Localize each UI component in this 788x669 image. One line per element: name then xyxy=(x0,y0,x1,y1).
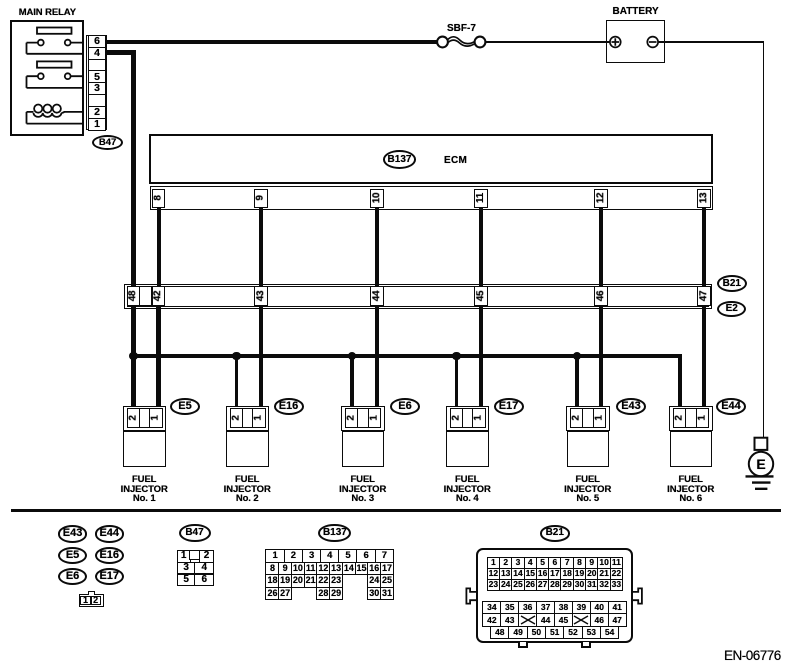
B137 face pin 27 xyxy=(278,587,292,601)
injector 4 pin 1 xyxy=(472,408,486,428)
fuel injector 4 body xyxy=(446,431,489,468)
relay pin 2 xyxy=(88,106,105,119)
B137 face pin 31 xyxy=(380,587,394,601)
label BATTERY xyxy=(613,7,659,17)
fuel injector 6 body xyxy=(670,431,713,468)
label FUEL INJECTOR No. 3 xyxy=(303,475,423,504)
fuel injector 2 body xyxy=(226,431,269,468)
B21 face bottom tab 1 xyxy=(518,642,528,649)
B137 face pin 15 xyxy=(355,562,369,576)
B21 face pin 25 xyxy=(511,579,525,591)
B21 face pin 13 xyxy=(499,568,513,580)
injector 1 pin 1 xyxy=(149,408,163,428)
B21 face pin 26 xyxy=(524,579,538,591)
ECM pin 8 xyxy=(152,189,165,208)
fuse SBF-7 symbol xyxy=(437,37,485,48)
legend connector label B47 xyxy=(179,524,211,542)
B21 face pin 42 xyxy=(482,613,501,627)
label FUEL INJECTOR No. 6 xyxy=(631,475,751,504)
B47 face pin 6 xyxy=(194,574,214,587)
legend connector label E17 xyxy=(95,568,125,585)
relay pin 3 xyxy=(88,82,105,95)
B21 face pin 41 xyxy=(608,601,627,615)
legend 2-pin connector tab xyxy=(88,591,94,595)
B137 face pin 19 xyxy=(278,574,292,588)
label FUEL INJECTOR No. 5 xyxy=(528,475,648,504)
relay pin 1 xyxy=(88,118,105,131)
B21 face pin 5 xyxy=(536,557,550,569)
connector label B137 xyxy=(383,150,416,169)
B21 face pin 19 xyxy=(573,568,587,580)
B47 face pin 1 xyxy=(177,550,191,563)
B21 face bottom tab 2 xyxy=(581,642,591,649)
B21 face pin 33 xyxy=(610,579,624,591)
bus junction at injector 5 xyxy=(573,352,581,360)
relay pin 4 xyxy=(88,47,105,60)
B21 face pin 40 xyxy=(590,601,609,615)
relay strip blank cell xyxy=(88,94,105,107)
legend connector label B21 xyxy=(540,525,570,541)
ECM pin 13 xyxy=(697,189,710,208)
strip pin 43 xyxy=(254,286,267,306)
fuel injector 5 connector outline xyxy=(566,406,610,431)
strip pin 48 xyxy=(127,286,140,306)
connector label E2 xyxy=(717,301,746,318)
wire strip pin 47 down to injector xyxy=(702,305,706,408)
legend connector label E43 xyxy=(58,525,88,542)
label MAIN RELAY xyxy=(19,8,76,18)
strip pin 44 xyxy=(370,286,383,306)
label FUEL INJECTOR No. 2 xyxy=(187,475,307,504)
B21 face pin 45 xyxy=(554,613,573,627)
wire relay pin6 to fuse SBF-7 xyxy=(107,40,436,44)
connector label B47 xyxy=(92,135,124,150)
connector strip B21/E2 inner xyxy=(127,286,709,306)
fuel injector 3 connector outline xyxy=(341,406,385,431)
connector strip B21/E2 outer xyxy=(124,284,711,309)
B21 face pin 43 xyxy=(500,613,519,627)
injector 4 connector middle cell xyxy=(462,408,474,428)
B21 face pin 6 xyxy=(548,557,562,569)
fuel injector 5 body xyxy=(567,431,610,468)
injector 3 connector middle cell xyxy=(357,408,369,428)
B21 face pin 30 xyxy=(573,579,587,591)
relay pin 6 xyxy=(88,35,105,48)
B137 face pin 30 xyxy=(367,587,381,601)
wire bus drop to injector pin 2 xyxy=(235,356,239,407)
bus junction at injector 2 xyxy=(232,352,240,360)
B21 face pin 8 xyxy=(573,557,587,569)
B21 face pin 39 xyxy=(572,601,591,615)
label SBF-7 xyxy=(447,24,476,34)
fuel injector 4 connector outline xyxy=(446,406,490,431)
wire battery negative to corner xyxy=(658,41,764,43)
legend connector label E44 xyxy=(95,525,125,542)
B137 face pin 2 xyxy=(284,549,304,563)
wire strip pin 44 down to injector xyxy=(375,305,379,408)
strip pin 42 xyxy=(152,286,165,306)
wire ECM pin 9 down to connector strip xyxy=(259,207,263,286)
connector label E17 xyxy=(494,398,524,415)
label E (ground) xyxy=(755,457,768,471)
wire ground bus horizontal xyxy=(131,354,682,358)
strip pin 46 xyxy=(594,286,607,306)
battery box xyxy=(606,20,665,63)
B137 face pin 21 xyxy=(304,574,318,588)
injector 3 pin 2 xyxy=(345,408,359,428)
ground symbol lines xyxy=(746,476,774,488)
ground connector square (E) xyxy=(755,438,768,450)
connector label B21 xyxy=(717,275,747,292)
B21 face pin 9 xyxy=(585,557,599,569)
B21 face pin 7 xyxy=(560,557,574,569)
B47 face pin 4 xyxy=(194,562,214,575)
B137 face pin 8 xyxy=(265,562,279,576)
wire ECM pin 13 down to connector strip xyxy=(702,207,706,286)
B21 face pin 3 xyxy=(511,557,525,569)
injector 6 connector middle cell xyxy=(685,408,697,428)
B47 face pin 2 xyxy=(199,550,215,563)
B137 face pin 3 xyxy=(302,549,322,563)
B21 face pin 28 xyxy=(548,579,562,591)
B21 face pin 27 xyxy=(536,579,550,591)
strip blank cell xyxy=(139,286,152,306)
B137 face pin 10 xyxy=(291,562,305,576)
B21 face pin 10 xyxy=(597,557,611,569)
injector 2 pin 2 xyxy=(230,408,244,428)
wire strip pin 42 down to injector xyxy=(156,305,160,408)
battery negative terminal xyxy=(647,37,658,48)
B137 face pin 18 xyxy=(265,574,279,588)
injector 5 pin 2 xyxy=(570,408,584,428)
B21 face pin 47 xyxy=(608,613,627,627)
B21 face housing xyxy=(476,548,633,643)
main relay box xyxy=(10,20,84,136)
wire separator line xyxy=(11,509,782,512)
B21 face pin 22 xyxy=(610,568,624,580)
B21 face pin 31 xyxy=(585,579,599,591)
legend 2-pin connector pin 1 xyxy=(80,596,90,605)
main relay contact 1 (terminals + wiring to pins 6/4) xyxy=(27,40,84,54)
B21 face blocked cavity xyxy=(518,613,537,627)
B137 face pin 14 xyxy=(342,562,356,576)
injector 4 pin 2 xyxy=(450,408,464,428)
fuel injector 3 body xyxy=(342,431,385,468)
injector 5 pin 1 xyxy=(593,408,607,428)
injector 1 connector middle cell xyxy=(139,408,151,428)
B21 face pin 32 xyxy=(597,579,611,591)
legend connector label E5 xyxy=(58,547,88,564)
strip pin 45 xyxy=(474,286,487,306)
B21 face pin 53 xyxy=(582,626,602,640)
fuel injector 1 body xyxy=(123,431,166,468)
bus junction at injector 4 xyxy=(452,352,460,360)
fuel injector 6 connector outline xyxy=(669,406,713,431)
wire ECM pin 10 down to connector strip xyxy=(375,207,379,286)
B21 face pin 12 xyxy=(487,568,501,580)
B137 face pin 6 xyxy=(356,549,376,563)
label ECM xyxy=(444,156,467,166)
B137 face pin 5 xyxy=(338,549,358,563)
B21 face pin 11 xyxy=(610,557,624,569)
B21 face pin 54 xyxy=(600,626,620,640)
B21 face pin 21 xyxy=(597,568,611,580)
connector label E43 xyxy=(616,398,646,415)
legend connector label E16 xyxy=(95,547,125,564)
wire relay pin4 horizontal xyxy=(107,50,136,54)
fuel injector 2 connector outline xyxy=(226,406,270,431)
B137 face pin 1 xyxy=(265,549,285,563)
B21 face pin 17 xyxy=(548,568,562,580)
B21 face pin 36 xyxy=(518,601,537,615)
strip pin 47 xyxy=(697,286,710,306)
B21 face pin 50 xyxy=(527,626,547,640)
label FUEL INJECTOR No. 1 xyxy=(84,475,204,504)
B21 face pin 35 xyxy=(500,601,519,615)
wire strip pin 43 down to injector xyxy=(259,305,263,408)
connector label E16 xyxy=(274,398,304,415)
injector 6 pin 1 xyxy=(696,408,710,428)
wire bus drop to injector pin 2 xyxy=(350,356,354,407)
ground circle E xyxy=(749,452,773,476)
connector label E6 xyxy=(390,398,420,415)
B47 face key notch xyxy=(189,550,200,560)
injector 6 pin 2 xyxy=(673,408,687,428)
fuel injector 1 connector outline xyxy=(123,406,167,431)
B21 face blocked cavity xyxy=(572,613,591,627)
main relay contact 2 (terminals + wiring to pins 5/3) xyxy=(27,73,84,88)
label FUEL INJECTOR No. 4 xyxy=(407,475,527,504)
B21 face pin 20 xyxy=(585,568,599,580)
injector 5 connector middle cell xyxy=(582,408,594,428)
connector label E5 xyxy=(170,398,200,415)
B21 face pin 23 xyxy=(487,579,501,591)
B21 face pin 24 xyxy=(499,579,513,591)
B47 face pin 3 xyxy=(177,562,196,575)
B21 face pin 2 xyxy=(499,557,513,569)
B137 face pin 7 xyxy=(375,549,395,563)
figure number EN-06776 xyxy=(724,649,781,663)
B21 face pin 49 xyxy=(508,626,528,640)
wire strip pin 46 down to injector xyxy=(599,305,603,408)
legend connector label B137 xyxy=(318,524,351,542)
B21 face pin 46 xyxy=(590,613,609,627)
wire bus drop to injector pin 2 xyxy=(575,356,579,407)
B137 face pin 17 xyxy=(380,562,394,576)
B137 face pin 25 xyxy=(380,574,394,588)
wire ECM pin 11 down to connector strip xyxy=(479,207,483,286)
ECM box xyxy=(149,134,713,185)
injector 2 connector middle cell xyxy=(242,408,254,428)
B137 face pin 12 xyxy=(316,562,330,576)
B21 face pin 38 xyxy=(554,601,573,615)
ECM pin 11 xyxy=(474,189,487,208)
legend 2-pin connector face xyxy=(79,594,104,606)
main relay coil xyxy=(27,105,84,124)
legend connector label E6 xyxy=(58,568,88,585)
ECM pin strip band xyxy=(150,186,714,210)
B137 face pin 29 xyxy=(329,587,343,601)
B21 face pin 34 xyxy=(482,601,501,615)
relay connector strip B47 outline xyxy=(86,35,107,130)
wire right side vertical down to ground xyxy=(763,41,765,438)
B21 face pin 14 xyxy=(511,568,525,580)
B21 face pin 15 xyxy=(524,568,538,580)
ECM pin 10 xyxy=(370,189,383,208)
B137 face pin 28 xyxy=(316,587,330,601)
relay pin 5 xyxy=(88,70,105,83)
B21 face pin 1 xyxy=(487,557,501,569)
B137 face pin 20 xyxy=(291,574,305,588)
B137 face pin 11 xyxy=(304,562,318,576)
ECM pin 12 xyxy=(594,189,607,208)
wire ECM pin 8 down to connector strip xyxy=(157,207,161,286)
B137 face pin 4 xyxy=(320,549,340,563)
B137 face pin 24 xyxy=(367,574,381,588)
battery positive terminal xyxy=(610,37,621,48)
B47 face pin 5 xyxy=(177,574,196,587)
B21 face pin 48 xyxy=(490,626,510,640)
wire ECM pin 12 down to connector strip xyxy=(599,207,603,286)
main relay contact bar 1 xyxy=(37,28,72,34)
B137 face pin 22 xyxy=(316,574,330,588)
B21 face pin 4 xyxy=(524,557,538,569)
wire strip pin 45 down to injector xyxy=(479,305,483,408)
B21 face pin 29 xyxy=(560,579,574,591)
relay strip blank cell xyxy=(88,59,105,72)
B21 face pin 18 xyxy=(560,568,574,580)
wire bus drop to injector pin 2 xyxy=(455,356,459,407)
B21 face pin 37 xyxy=(536,601,555,615)
B137 face pin 23 xyxy=(329,574,343,588)
wire relay pin4 vertical down (to B21 pin48 / bus) xyxy=(131,50,135,406)
injector 2 pin 1 xyxy=(252,408,266,428)
B137 face pin 26 xyxy=(265,587,279,601)
connector label E44 xyxy=(716,398,746,415)
B137 face pin 9 xyxy=(278,562,292,576)
bus junction at injector 3 xyxy=(348,352,356,360)
wire fuse SBF-7 to battery xyxy=(486,41,611,43)
ECM pin 9 xyxy=(254,189,267,208)
B21 face pin 16 xyxy=(536,568,550,580)
B21 face pin 44 xyxy=(536,613,555,627)
B21 face pin 51 xyxy=(545,626,565,640)
injector 1 pin 2 xyxy=(127,408,141,428)
bus junction at injector 1 xyxy=(129,352,137,360)
B137 face pin 13 xyxy=(329,562,343,576)
B137 face pin 16 xyxy=(367,562,381,576)
injector 3 pin 1 xyxy=(368,408,382,428)
B21 face pin 52 xyxy=(563,626,583,640)
main relay contact bar 2 xyxy=(37,61,72,67)
wire bus corner drop to injector 6 pin 2 xyxy=(678,354,682,407)
legend 2-pin connector pin 2 xyxy=(91,596,101,605)
